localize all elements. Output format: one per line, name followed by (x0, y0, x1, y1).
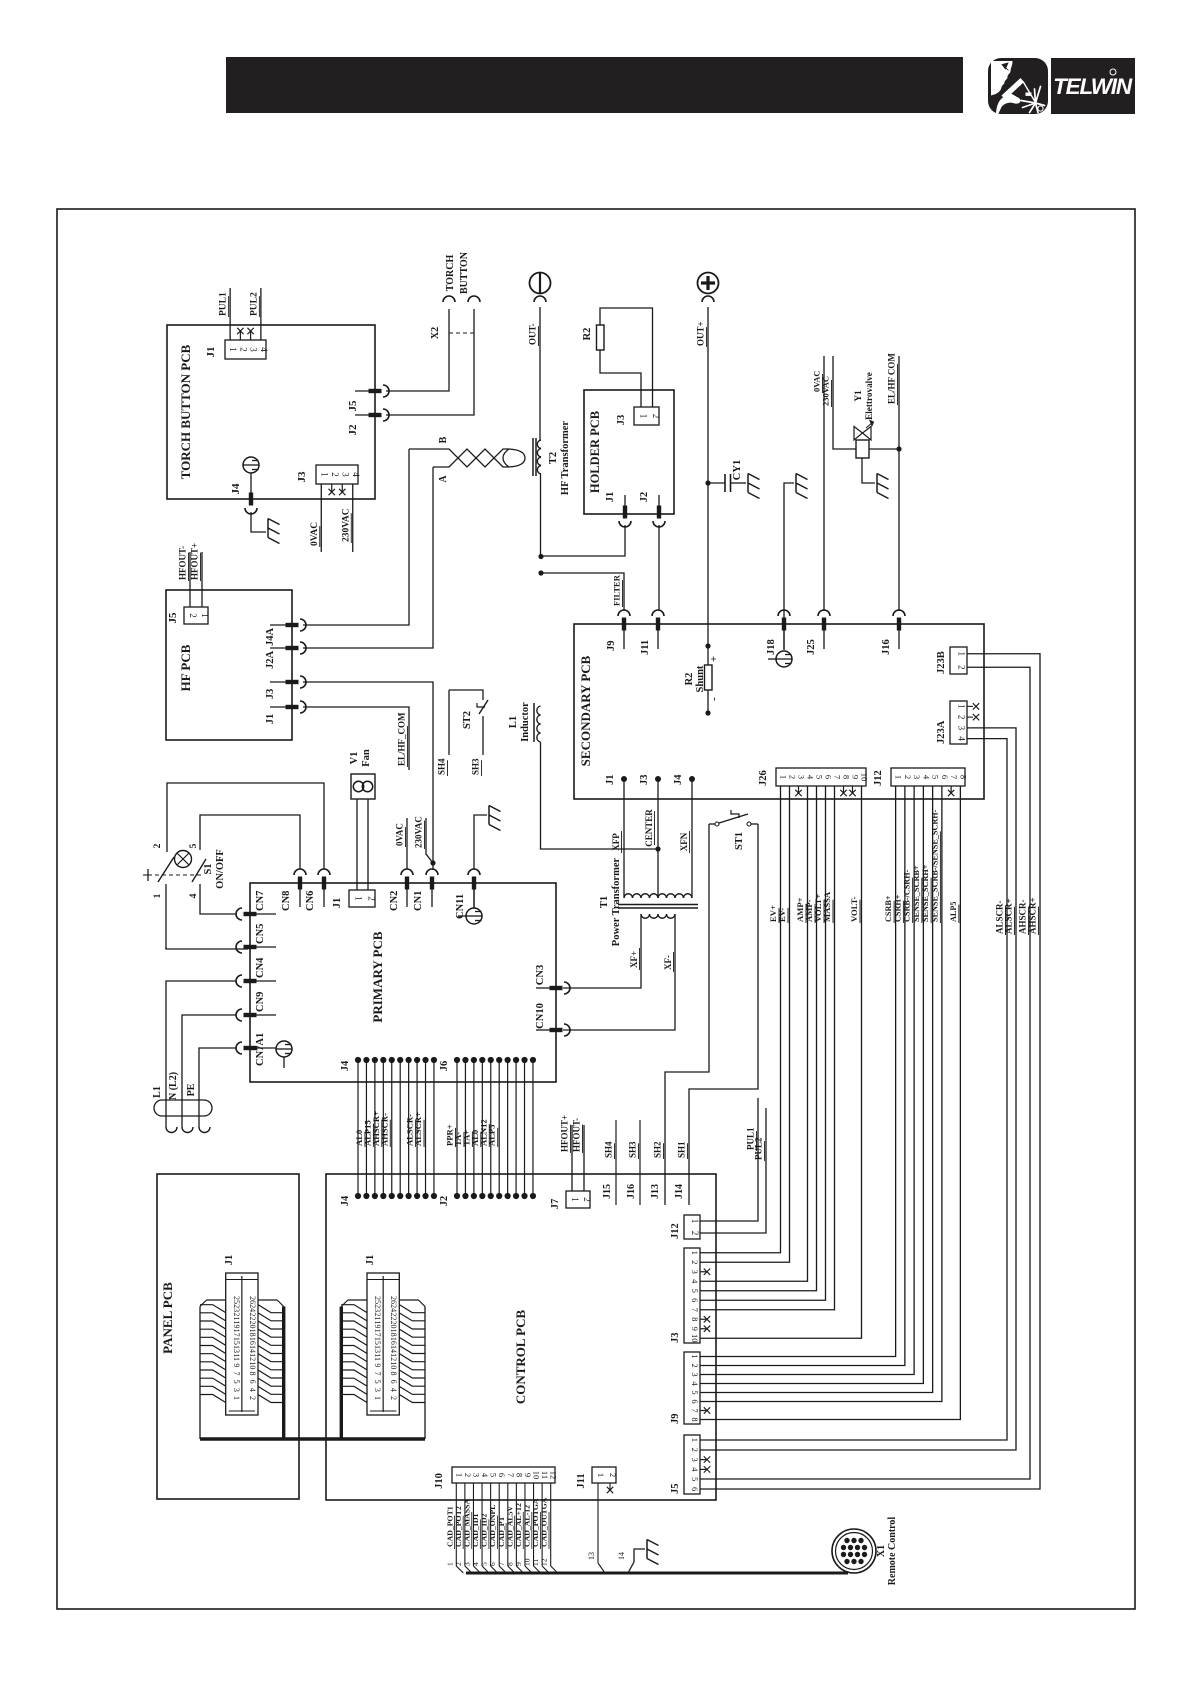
wire J10.1 CAD_POT1 (455, 1483, 457, 1566)
svg-text:CN7A1: CN7A1 (255, 1033, 266, 1066)
wire R2 top to J3.2 (600, 308, 653, 407)
svg-text:J1: J1 (224, 1255, 235, 1266)
svg-text:SENSE_SCRB+: SENSE_SCRB+ (912, 865, 921, 922)
svg-text:CSRH+: CSRH+ (893, 894, 902, 922)
connector J26 secondary (776, 768, 866, 786)
cut mark control J9.7 (700, 1410, 706, 1412)
svg-text:16: 16 (389, 1337, 398, 1345)
svg-text:17: 17 (232, 1329, 241, 1337)
svg-text:OUT+: OUT+ (696, 321, 706, 346)
wire primary J4.7 (408, 1060, 410, 1196)
svg-text:HF PCB: HF PCB (178, 644, 193, 691)
svg-text:J16: J16 (626, 1184, 637, 1199)
wire primary J4.5 (391, 1060, 393, 1196)
connector J1 torch (225, 340, 266, 359)
thermostat ST2 (449, 690, 483, 700)
svg-text:J9: J9 (606, 641, 617, 652)
wire J16 EL/HF COM (898, 356, 900, 611)
svg-text:J2: J2 (439, 1196, 450, 1207)
svg-text:2: 2 (788, 775, 798, 779)
svg-text:12: 12 (248, 1353, 257, 1361)
svg-text:0VAC: 0VAC (395, 823, 405, 846)
svg-text:J4: J4 (673, 774, 684, 785)
cut mark J1.2 (239, 330, 241, 340)
svg-text:3: 3 (373, 1388, 382, 1392)
fan V1 (351, 774, 375, 799)
svg-text:5: 5 (815, 775, 825, 779)
svg-text:J4: J4 (340, 1060, 351, 1071)
svg-text:2: 2 (463, 1473, 473, 1477)
svg-text:J12: J12 (873, 770, 884, 786)
svg-text:6: 6 (690, 1399, 700, 1403)
svg-text:X1: X1 (876, 1545, 887, 1557)
svg-text:1: 1 (454, 1473, 464, 1477)
svg-text:J23B: J23B (936, 651, 947, 674)
connector J3 holder (634, 407, 659, 425)
resistor R2 holder (597, 325, 605, 350)
svg-text:20: 20 (389, 1321, 398, 1329)
svg-text:1: 1 (690, 1354, 700, 1358)
svg-text:SH3: SH3 (628, 1141, 638, 1158)
cut mark J1.3 (250, 330, 252, 340)
svg-text:J15: J15 (602, 1184, 613, 1199)
cut mark control J5.3 (700, 1459, 706, 1461)
pin J5 torch (355, 390, 375, 392)
svg-text:8: 8 (842, 775, 852, 779)
cut mark control J3.8 (700, 1318, 706, 1320)
wire CN9 to mains N (182, 1015, 236, 1127)
svg-text:7: 7 (232, 1372, 241, 1376)
svg-text:J3: J3 (296, 471, 308, 483)
cut mark J3.2 (331, 484, 333, 493)
svg-text:21: 21 (232, 1312, 241, 1320)
svg-text:J16: J16 (881, 639, 892, 655)
wire J11.1 to remote cable (597, 1483, 599, 1563)
wire FILTER node to secondary J9 (541, 573, 624, 610)
svg-text:J3: J3 (670, 1333, 681, 1344)
switch S1 ON/OFF (148, 874, 204, 876)
PANEL PCB board (157, 1174, 299, 1499)
svg-text:1: 1 (957, 704, 967, 709)
connector J12 secondary (891, 768, 965, 786)
svg-text:4: 4 (189, 893, 199, 898)
wire J5 to torch button (386, 309, 449, 391)
pin CN3 primary (550, 986, 563, 990)
svg-text:X2: X2 (430, 327, 441, 339)
svg-text:J11: J11 (576, 1473, 587, 1488)
wire Y1 coil to ground (862, 458, 875, 483)
svg-text:CN4: CN4 (255, 957, 266, 978)
cut mark control J5.4 (700, 1468, 706, 1470)
svg-text:9: 9 (690, 1327, 700, 1331)
chassis symbol at J18 (776, 651, 792, 667)
svg-text:J3: J3 (639, 775, 650, 786)
terminal OUT+ (698, 273, 719, 294)
inductor L1 (533, 703, 535, 742)
svg-text:7: 7 (833, 775, 843, 779)
wire primary J4.4 (382, 1060, 384, 1196)
wire J10.10 CAD_AL-12 (533, 1483, 535, 1566)
pin J25 secondary (822, 618, 826, 631)
connector J4 torch (243, 457, 259, 473)
svg-text:CSRB+: CSRB+ (884, 895, 893, 922)
svg-text:Fan: Fan (361, 749, 372, 767)
svg-text:5: 5 (232, 1380, 241, 1384)
wire primary J4.1 (357, 1060, 359, 1196)
wire primary J6.9 (524, 1060, 526, 1196)
svg-text:SECONDARY PCB: SECONDARY PCB (578, 655, 593, 766)
svg-text:230VAC: 230VAC (414, 816, 424, 848)
pin J16 secondary (897, 618, 901, 631)
wire J3.1 0VAC (320, 484, 322, 552)
svg-text:BUTTON: BUTTON (459, 251, 470, 294)
ground at CN11 (488, 806, 490, 825)
svg-text:CN5: CN5 (255, 924, 266, 944)
connector J12 control (684, 1215, 700, 1239)
svg-text:6: 6 (389, 1380, 398, 1384)
svg-text:J11: J11 (640, 640, 651, 655)
svg-text:1: 1 (570, 1197, 580, 1202)
svg-text:6: 6 (690, 1487, 700, 1491)
wire ALSCR- J23A.4 to control J5.1 (700, 739, 1007, 1440)
pin J11 secondary (656, 618, 660, 631)
connector J5 hf (184, 607, 208, 624)
svg-text:12: 12 (540, 1558, 549, 1566)
svg-text:J1: J1 (605, 775, 616, 786)
svg-text:2: 2 (330, 472, 340, 477)
svg-text:14: 14 (617, 1552, 626, 1560)
svg-text:7: 7 (506, 1473, 516, 1477)
wire primary J4.2 (365, 1060, 367, 1196)
svg-text:SH4: SH4 (604, 1141, 614, 1158)
wire OUT+ down to shunt (707, 307, 709, 646)
svg-text:10: 10 (532, 1471, 542, 1480)
svg-text:J25: J25 (806, 639, 817, 655)
wire OUT- down to T2 (539, 307, 541, 440)
wire ALSCR+ J23A.3 to control J5.2 (700, 728, 1016, 1450)
svg-text:SH3: SH3 (471, 758, 481, 775)
HF PCB board (166, 590, 292, 740)
svg-text:AHSCR-: AHSCR- (379, 1113, 389, 1146)
svg-text:1: 1 (690, 1251, 700, 1255)
svg-text:16: 16 (248, 1337, 257, 1345)
svg-text:22: 22 (389, 1312, 398, 1320)
svg-text:1: 1 (232, 1396, 241, 1400)
pin CN1 primary (430, 877, 434, 890)
wire holder J1 to OUT- node (541, 525, 625, 556)
wire HF J2A to net A (303, 467, 433, 648)
svg-text:1: 1 (957, 652, 967, 657)
twisted pair to HF transformer (409, 449, 509, 467)
svg-text:2: 2 (690, 1260, 700, 1264)
svg-text:Elettrovalve: Elettrovalve (864, 372, 874, 420)
svg-text:1: 1 (354, 896, 364, 901)
svg-text:J1: J1 (365, 1255, 376, 1266)
wire HF J4A to net B (303, 449, 409, 625)
svg-text:VOLT-: VOLT- (849, 896, 859, 922)
svg-text:J14: J14 (674, 1184, 685, 1199)
svg-text:13: 13 (587, 1552, 596, 1560)
svg-text:J3: J3 (616, 415, 627, 426)
svg-text:PUL2: PUL2 (249, 292, 259, 316)
svg-text:V1: V1 (349, 752, 360, 765)
wire AHSCR+ J23B.1 to control J5.6 (700, 654, 1040, 1489)
wire primary J6.7 (507, 1060, 509, 1196)
svg-text:5: 5 (373, 1380, 382, 1384)
transformer T1 primary winding (624, 894, 692, 898)
svg-text:R2: R2 (582, 328, 593, 341)
wire CN7A1 to mains PE (199, 1048, 236, 1127)
svg-text:-: - (708, 697, 720, 701)
svg-text:L1: L1 (508, 716, 519, 728)
svg-text:3: 3 (912, 775, 922, 779)
wire J10.5 CAD_ID2 (490, 1483, 492, 1566)
svg-text:17: 17 (373, 1329, 382, 1337)
ground wire 14 at remote cable (628, 1549, 645, 1573)
svg-text:5: 5 (690, 1477, 700, 1481)
svg-text:12: 12 (549, 1471, 559, 1480)
wire 230VAC to Y1 coil (833, 356, 856, 449)
cut mark J26.9 (852, 786, 854, 792)
wire primary J4.6 (399, 1060, 401, 1196)
svg-text:3: 3 (232, 1388, 241, 1392)
electrovalve Y1 (856, 440, 869, 458)
pin J4 secondary (689, 776, 695, 782)
svg-text:7: 7 (949, 775, 959, 779)
HOLDER PCB board (584, 390, 674, 514)
wire J18 to ground (784, 483, 794, 650)
wire J12.8 ALP5 to control J9.8 (700, 786, 960, 1420)
svg-text:PUL1: PUL1 (219, 292, 229, 316)
svg-text:J7: J7 (550, 1199, 561, 1210)
connector X2 dashed link (449, 332, 474, 334)
svg-text:1: 1 (690, 1438, 700, 1442)
svg-text:HFOUT+: HFOUT+ (190, 543, 200, 580)
wire J10.8 CAD_AL5V (515, 1483, 517, 1566)
pin CN5 primary (244, 945, 257, 949)
wire primary J6.10 (532, 1060, 534, 1196)
svg-text:ST1: ST1 (734, 832, 745, 850)
pin J2A hf (270, 647, 292, 649)
connector J9 control (684, 1352, 700, 1424)
svg-text:19: 19 (232, 1321, 241, 1329)
svg-text:J5: J5 (670, 1484, 681, 1495)
svg-text:J1: J1 (605, 492, 616, 503)
connector J7 control (566, 1191, 590, 1208)
svg-text:3: 3 (690, 1372, 700, 1376)
svg-text:PANEL PCB: PANEL PCB (160, 1282, 175, 1354)
pin CN4 primary (244, 979, 257, 983)
svg-text:J5: J5 (167, 612, 179, 624)
wire J10.3 CAD_MASSA (472, 1483, 474, 1566)
svg-text:J1: J1 (205, 347, 217, 358)
svg-text:20: 20 (248, 1321, 257, 1329)
svg-text:13: 13 (373, 1345, 382, 1353)
shunt R2 secondary (705, 643, 710, 648)
wire J10.4 CAD_ID1 (481, 1483, 483, 1566)
svg-text:230VAC: 230VAC (821, 376, 831, 406)
svg-text:J3: J3 (265, 689, 276, 700)
wire J1.1 PUL1 (229, 288, 231, 340)
cut mark J3.3 (341, 484, 343, 493)
svg-text:J9: J9 (670, 1414, 681, 1425)
svg-text:CN11: CN11 (455, 894, 466, 919)
svg-text:J1: J1 (332, 898, 343, 909)
ground at Y1 (876, 474, 878, 493)
svg-text:1: 1 (638, 414, 648, 419)
svg-text:Remote Control: Remote Control (887, 1517, 898, 1586)
svg-text:1: 1 (779, 775, 789, 779)
terminal L1 mains (166, 1127, 177, 1133)
terminal OUT- (530, 273, 551, 294)
svg-text:XF-: XF- (663, 955, 673, 970)
svg-text:TELWIN: TELWIN (1053, 74, 1133, 99)
svg-text:J2: J2 (347, 424, 359, 436)
wire secondary J4 XFN to T1 (691, 799, 693, 892)
svg-text:5: 5 (690, 1390, 700, 1394)
header bar (226, 57, 963, 113)
svg-text:12: 12 (389, 1353, 398, 1361)
svg-text:OUT-: OUT- (528, 323, 538, 345)
svg-text:13: 13 (232, 1345, 241, 1353)
svg-text:2: 2 (957, 715, 967, 720)
svg-text:MASSA: MASSA (822, 891, 832, 922)
svg-text:23: 23 (232, 1304, 241, 1312)
svg-text:2: 2 (690, 1448, 700, 1452)
wire primary J4.8 (416, 1060, 418, 1196)
svg-text:EV-: EV- (777, 908, 787, 922)
ground at J18 wire (795, 474, 797, 493)
wire J3.4 230VAC (352, 484, 354, 552)
wire J12.4 SENSE_SCRB+ to control J9.4 (700, 786, 923, 1384)
torch button terminal A (443, 296, 455, 302)
svg-text:J18: J18 (766, 639, 777, 655)
wire primary J6.1 (456, 1060, 458, 1196)
svg-text:23: 23 (373, 1304, 382, 1312)
pin CN8 primary (298, 877, 302, 890)
SECONDARY PCB board (574, 624, 984, 799)
wire J12.2 CSRH+ to control J9.2 (700, 786, 905, 1366)
wire XF- to primary CN10 (563, 914, 675, 1030)
wire Y1 coil to EL/HF COM (869, 448, 899, 450)
svg-text:2: 2 (367, 896, 377, 901)
svg-text:Power Transformer: Power Transformer (611, 857, 622, 946)
wire J10.6 CAD_ONPL (498, 1483, 500, 1566)
pin J1 secondary (621, 776, 627, 782)
svg-text:11: 11 (232, 1353, 241, 1361)
pin CN9 primary (244, 1013, 257, 1017)
svg-text:3: 3 (957, 726, 967, 731)
svg-text:AHSCR+: AHSCR+ (1028, 897, 1038, 934)
svg-text:2: 2 (389, 1396, 398, 1400)
wire J12.2 PUL2 (700, 1108, 766, 1233)
svg-text:1: 1 (200, 613, 210, 618)
pin CN2 primary (405, 877, 409, 890)
wire ST1 to SH1 (689, 824, 758, 1205)
wire primary J6.6 (498, 1060, 500, 1196)
net stub 230VAC at CN1 (430, 860, 435, 865)
wire J26.7 MASSA to control J3.7 (700, 786, 835, 1310)
svg-text:1: 1 (596, 1473, 606, 1477)
wire L1 to T1 center tap (541, 742, 659, 849)
svg-text:3: 3 (690, 1457, 700, 1461)
wire J10.9 CAD_AL+12 (524, 1483, 526, 1566)
svg-text:J23A: J23A (936, 720, 947, 744)
wire J4 to ground (251, 512, 266, 532)
svg-text:4: 4 (480, 1473, 490, 1478)
svg-text:1: 1 (894, 775, 904, 779)
svg-text:L1: L1 (152, 1086, 163, 1098)
svg-text:+: + (708, 656, 720, 662)
svg-text:CSRB-/CSRH-: CSRB-/CSRH- (903, 869, 912, 922)
svg-text:CN1: CN1 (413, 891, 424, 911)
svg-text:1: 1 (373, 1396, 382, 1400)
wire J26.4 AMP+ to control J3.4 (700, 786, 808, 1281)
remote control cable (466, 1572, 848, 1575)
svg-text:HFOUT+: HFOUT+ (560, 1115, 570, 1152)
connector J23B secondary (950, 647, 967, 674)
svg-text:18: 18 (389, 1329, 398, 1337)
wire S1.4 to CN7 (200, 884, 236, 914)
pin J2 holder (658, 495, 660, 507)
connector J11 control (592, 1467, 616, 1483)
svg-text:FILTER: FILTER (612, 574, 622, 606)
svg-text:J4A: J4A (265, 628, 276, 647)
svg-text:SENSE_SCRB-/SENSE_SCRH-: SENSE_SCRB-/SENSE_SCRH- (930, 809, 939, 922)
chassis symbol at CN7A1 (276, 1041, 292, 1057)
svg-text:J2A: J2A (265, 651, 276, 670)
svg-text:3: 3 (690, 1270, 700, 1274)
svg-text:A: A (438, 475, 449, 483)
wire primary J4.9 (425, 1060, 427, 1196)
cut mark J12.7 (950, 786, 952, 792)
svg-text:2: 2 (153, 843, 163, 848)
svg-text:9: 9 (523, 1473, 533, 1477)
wire J26.5 AMP- to control J3.5 (700, 786, 817, 1291)
wire J12.3 CSRB-/CSRH- to control J9.3 (700, 786, 914, 1375)
net stub SH4 at J15 (615, 1120, 617, 1205)
svg-text:N (L2): N (L2) (168, 1072, 179, 1100)
svg-text:8: 8 (389, 1372, 398, 1376)
wire AHSCR- J23B.2 to control J5.5 (700, 667, 1030, 1479)
svg-text:ALSCR+: ALSCR+ (1004, 898, 1014, 934)
svg-text:CAD_OUTGA: CAD_OUTGA (540, 1497, 549, 1547)
svg-text:TORCH: TORCH (445, 255, 456, 292)
wire J7.1 HFOUT+ (571, 1125, 573, 1191)
svg-text:22: 22 (248, 1312, 257, 1320)
connector J23A secondary (950, 701, 967, 744)
pin J1 holder (624, 495, 626, 507)
svg-text:7: 7 (690, 1408, 700, 1412)
svg-text:J13: J13 (650, 1184, 661, 1199)
wire secondary J1 XFP to T1 (623, 799, 625, 892)
svg-text:2: 2 (608, 1473, 618, 1477)
wire primary J4.10 (433, 1060, 435, 1196)
net stub SH3 at J16 (639, 1120, 641, 1205)
wire J12.5 SENSE_SCRH+ to control J9.5 (700, 786, 933, 1393)
net stub 0VAC at CN2 (406, 818, 408, 869)
wire fan to J1 primary (356, 799, 358, 890)
ground at J4 (267, 519, 269, 538)
svg-text:10: 10 (860, 773, 870, 782)
svg-text:J1: J1 (265, 714, 276, 725)
wire J2 to torch button (386, 309, 474, 415)
drawing frame (57, 209, 1135, 1609)
svg-text:R2: R2 (684, 673, 695, 686)
svg-text:230VAC: 230VAC (341, 508, 351, 542)
svg-text:5: 5 (489, 1473, 499, 1477)
svg-text:5: 5 (189, 843, 199, 848)
